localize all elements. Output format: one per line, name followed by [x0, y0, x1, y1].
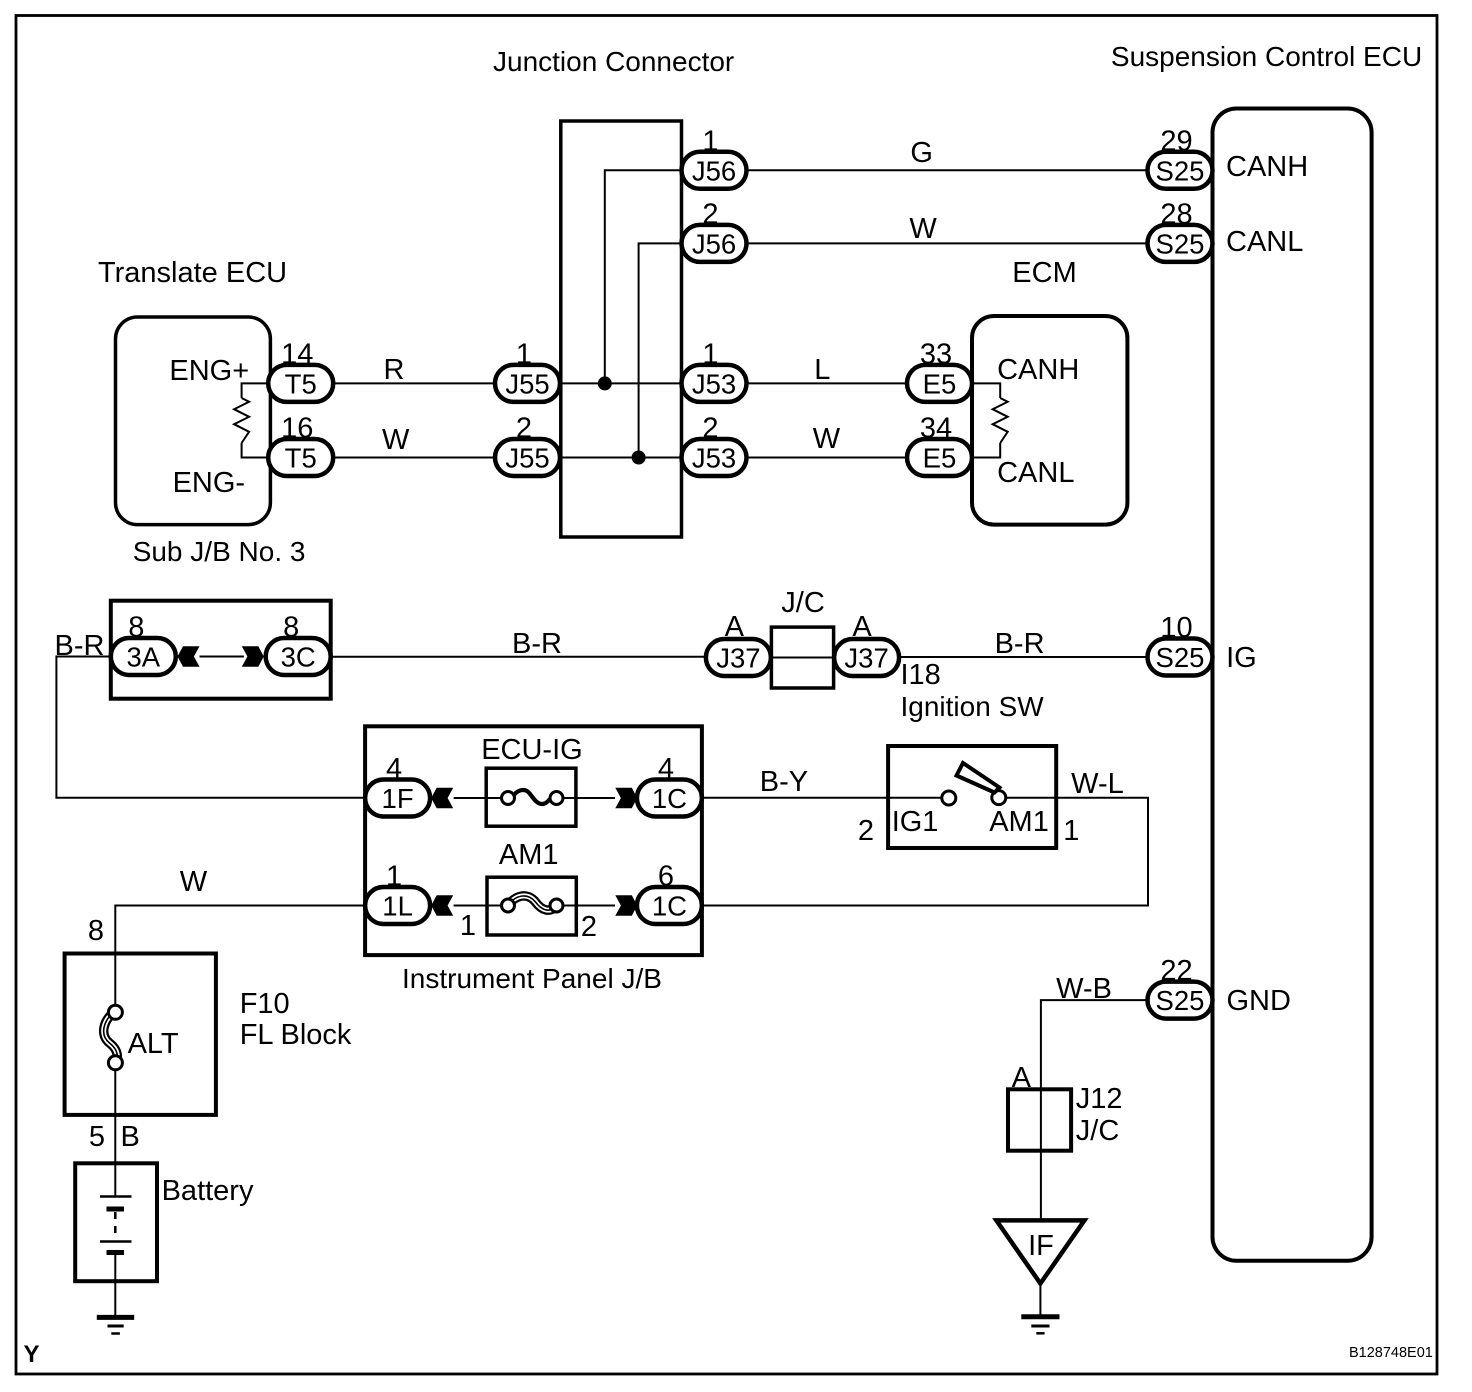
svg-text:1: 1 — [702, 338, 718, 370]
svg-text:1L: 1L — [382, 891, 413, 922]
svg-text:2: 2 — [858, 815, 874, 847]
svg-text:J55: J55 — [505, 443, 549, 474]
svg-text:J37: J37 — [844, 643, 888, 674]
svg-text:1: 1 — [516, 338, 532, 370]
wire W from FL block to 1L — [115, 906, 366, 1006]
wire ALT to battery — [114, 1070, 116, 1164]
svg-text:S25: S25 — [1156, 228, 1205, 259]
junction connector box — [561, 121, 682, 537]
connector T5 pin 16 — [268, 413, 333, 477]
svg-text:2: 2 — [581, 911, 597, 943]
connector S25 pin 22 — [1148, 955, 1213, 1019]
ground plate IF triangle — [996, 1220, 1084, 1283]
svg-text:8: 8 — [128, 612, 144, 644]
wire J56-2 down to node B — [639, 243, 683, 457]
battery cell symbol — [100, 1163, 132, 1316]
connector J56 pin 2 — [682, 198, 747, 262]
wire 1F arrow to fuse — [454, 797, 501, 799]
svg-text:CANL: CANL — [1226, 226, 1303, 258]
Instrument Panel J/B box — [365, 726, 702, 955]
svg-text:1: 1 — [1063, 815, 1079, 847]
svg-text:FL Block: FL Block — [240, 1019, 352, 1051]
svg-text:16: 16 — [281, 413, 313, 445]
connector 1C pin 4 — [637, 753, 702, 817]
wire G J56-1 to S25-29 — [748, 169, 1147, 171]
connector S25 pin 10 — [1148, 612, 1213, 676]
svg-text:5: 5 — [89, 1121, 105, 1153]
svg-text:Translate ECU: Translate ECU — [98, 257, 287, 289]
node A junction dot — [598, 376, 612, 390]
svg-text:J55: J55 — [505, 368, 549, 399]
Suspension Control ECU box — [1213, 109, 1372, 1261]
wire W J56-2 to S25-28 — [748, 242, 1147, 244]
svg-text:R: R — [384, 354, 405, 386]
svg-text:G: G — [910, 137, 933, 169]
svg-text:1: 1 — [386, 861, 402, 893]
svg-text:Battery: Battery — [162, 1175, 254, 1207]
svg-text:Sub J/B No. 3: Sub J/B No. 3 — [133, 536, 306, 567]
svg-text:8: 8 — [88, 915, 104, 947]
connector T5 pin 14 — [268, 338, 333, 402]
svg-text:W: W — [180, 866, 208, 898]
AM1 fuse box — [487, 877, 576, 935]
ground IF — [1021, 1317, 1059, 1334]
svg-text:T5: T5 — [285, 368, 317, 399]
wire W-L ignition to AM1 row — [702, 798, 1148, 906]
svg-text:ALT: ALT — [128, 1028, 179, 1060]
svg-text:2: 2 — [702, 198, 718, 230]
svg-text:2: 2 — [702, 413, 718, 445]
svg-text:S25: S25 — [1156, 155, 1205, 186]
svg-text:J56: J56 — [692, 155, 736, 186]
fuse ECU-IG symbol — [502, 790, 564, 804]
connector J53 pin 2 — [682, 413, 747, 477]
svg-text:J/C: J/C — [781, 587, 825, 619]
svg-text:J37: J37 — [716, 643, 760, 674]
wire fuse to arrow 1C — [563, 797, 615, 799]
svg-text:AM1: AM1 — [499, 839, 559, 871]
svg-text:AM1: AM1 — [989, 806, 1049, 838]
connector E5 pin 33 — [907, 338, 972, 402]
svg-text:E5: E5 — [923, 368, 957, 399]
svg-text:J53: J53 — [692, 443, 736, 474]
wire J56-1 down to node A — [605, 170, 683, 383]
svg-text:Suspension Control ECU: Suspension Control ECU — [1111, 41, 1422, 72]
connector 1L pin 1 — [365, 861, 430, 925]
svg-text:IG1: IG1 — [892, 806, 939, 838]
svg-text:1: 1 — [460, 910, 476, 942]
wire W-B S25-22 to J12 — [1041, 1000, 1148, 1089]
svg-text:B-R: B-R — [512, 628, 562, 660]
svg-text:34: 34 — [920, 413, 952, 445]
svg-text:2: 2 — [516, 413, 532, 445]
svg-text:B-Y: B-Y — [760, 766, 808, 798]
connector S25 pin 29 — [1148, 125, 1213, 189]
Sub J/B No.3 box — [111, 601, 331, 699]
svg-text:1C: 1C — [652, 783, 687, 814]
wire IF to ground — [1039, 1284, 1041, 1316]
ground battery — [97, 1317, 134, 1333]
svg-text:29: 29 — [1160, 125, 1192, 157]
fusible link AM1 symbol — [502, 896, 564, 912]
wire CANH stub to resistor — [971, 383, 1000, 398]
svg-text:B-R: B-R — [995, 628, 1045, 660]
svg-text:8: 8 — [283, 612, 299, 644]
wire J55-1 to J53-1 through junction box — [559, 382, 683, 384]
svg-text:CANH: CANH — [1226, 151, 1308, 183]
svg-text:S25: S25 — [1156, 985, 1205, 1016]
svg-text:E5: E5 — [923, 443, 957, 474]
wire L J53-1 to E5-33 — [747, 382, 909, 384]
Battery box — [75, 1163, 157, 1281]
wire J37 to S25-10 — [898, 656, 1148, 658]
resistor ECM termination — [993, 398, 1008, 443]
svg-text:4: 4 — [386, 753, 402, 785]
svg-text:14: 14 — [281, 338, 313, 370]
svg-text:S25: S25 — [1156, 642, 1205, 673]
svg-text:IG: IG — [1226, 642, 1257, 674]
F10 FL block box — [65, 954, 216, 1115]
arrow left at 3A — [178, 646, 200, 667]
svg-text:28: 28 — [1160, 198, 1192, 230]
ignition switch contacts and lever — [888, 763, 1056, 805]
wire 1C to ignition SW B-Y — [702, 797, 888, 799]
Ignition SW box — [888, 746, 1056, 848]
connector J37 left pin A — [706, 639, 771, 676]
svg-text:ENG-: ENG- — [173, 467, 246, 499]
wire B-R from 3A down to 1F — [56, 657, 366, 798]
arrow right at 3C — [242, 646, 264, 667]
wire J55-2 to J53-2 through junction box — [559, 457, 683, 459]
node B junction dot — [632, 451, 646, 465]
connector 3C pin 8 — [266, 612, 331, 676]
svg-text:I18: I18 — [901, 659, 941, 691]
arrow right at 1C bottom — [615, 895, 637, 916]
svg-text:W-L: W-L — [1071, 768, 1124, 800]
connector J55 pin 1 — [495, 338, 560, 402]
wire W J53-2 to E5-34 — [747, 457, 909, 459]
connector 1C pin 6 — [637, 861, 702, 925]
svg-text:J56: J56 — [692, 228, 736, 259]
wire between arrows sub J/B — [200, 656, 244, 658]
svg-text:GND: GND — [1227, 985, 1291, 1017]
wire through J37 J/C box — [771, 657, 833, 659]
wire 3C to J37 — [331, 656, 706, 658]
connector E5 pin 34 — [907, 413, 972, 477]
svg-text:3A: 3A — [126, 642, 160, 673]
svg-text:J/C: J/C — [1076, 1115, 1120, 1147]
arrow left at 1F — [431, 788, 453, 809]
svg-text:ENG+: ENG+ — [169, 355, 249, 387]
svg-text:L: L — [814, 354, 830, 386]
svg-text:Junction Connector: Junction Connector — [493, 46, 734, 77]
J12 J/C box — [1008, 1089, 1071, 1150]
svg-text:A: A — [1012, 1062, 1032, 1094]
connector S25 pin 28 — [1148, 198, 1213, 262]
svg-text:CANL: CANL — [997, 457, 1074, 489]
svg-text:W: W — [813, 423, 841, 455]
svg-text:T5: T5 — [285, 443, 317, 474]
connector J53 pin 1 — [682, 338, 747, 402]
svg-text:Instrument Panel J/B: Instrument Panel J/B — [402, 963, 662, 994]
svg-text:6: 6 — [658, 861, 674, 893]
svg-text:4: 4 — [658, 753, 674, 785]
svg-text:B128748E01: B128748E01 — [1349, 1345, 1433, 1361]
wire resistor to ENG- stub — [242, 443, 268, 458]
arrow left at 1L — [431, 895, 453, 916]
svg-text:3C: 3C — [281, 642, 316, 673]
svg-text:F10: F10 — [240, 988, 290, 1020]
fusible link ALT symbol — [104, 1005, 123, 1070]
junction block J/C box at J37 — [771, 627, 833, 688]
connector J55 pin 2 — [495, 413, 560, 477]
wire AM1 fuse to arrow 1C — [563, 905, 615, 907]
svg-text:W: W — [909, 213, 937, 245]
svg-text:22: 22 — [1160, 955, 1192, 987]
svg-text:1C: 1C — [652, 891, 687, 922]
Translate ECU box — [116, 317, 271, 525]
svg-text:CANH: CANH — [997, 354, 1079, 386]
ECM box — [972, 316, 1127, 525]
wire through J12 box — [1040, 1089, 1042, 1220]
wire resistor to CANL stub — [971, 443, 1000, 458]
wire ENG+ stub to resistor — [242, 383, 268, 398]
connector J56 pin 1 — [682, 125, 747, 189]
arrow right at 1C top — [615, 788, 637, 809]
svg-text:33: 33 — [920, 338, 952, 370]
svg-text:IF: IF — [1028, 1230, 1054, 1262]
svg-text:ECM: ECM — [1012, 257, 1076, 289]
ECU-IG fuse box — [486, 768, 576, 826]
resistor translate ECU termination — [234, 398, 249, 443]
svg-text:10: 10 — [1160, 612, 1192, 644]
svg-text:B: B — [121, 1121, 140, 1153]
connector J37 right pin A — [834, 639, 899, 676]
wire 1L arrow to AM1 fuse — [454, 905, 502, 907]
svg-text:J53: J53 — [692, 368, 736, 399]
connector 1F pin 4 — [365, 753, 430, 817]
wire R T5-14 to J55-1 — [334, 382, 496, 384]
svg-text:Y: Y — [24, 1341, 40, 1368]
svg-text:W: W — [382, 424, 410, 456]
connector 3A pin 8 — [111, 612, 176, 676]
svg-text:Ignition SW: Ignition SW — [901, 691, 1045, 722]
svg-text:1: 1 — [702, 125, 718, 157]
svg-text:1F: 1F — [382, 783, 414, 814]
svg-text:J12: J12 — [1076, 1083, 1123, 1115]
wire W T5-16 to J55-2 — [334, 457, 496, 459]
svg-text:ECU-IG: ECU-IG — [481, 734, 583, 766]
